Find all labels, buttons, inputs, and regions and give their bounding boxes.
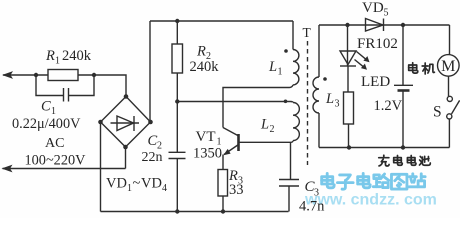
wire: bridge left corner down to ground rail xyxy=(100,122,102,212)
label 电机 (motor, CJK) xyxy=(409,63,435,74)
L3 polarity dot xyxy=(323,77,327,81)
wire: C1 parallel loop xyxy=(36,75,63,96)
node: charger top rail / LED tap xyxy=(345,23,349,27)
node: bridge bottom (AC in) xyxy=(123,145,128,150)
svg-text:R: R xyxy=(45,48,55,64)
node: C2 at ground rail xyxy=(175,209,179,213)
wire: LED top lead xyxy=(347,25,349,66)
svg-text:3: 3 xyxy=(314,188,319,199)
svg-text:1: 1 xyxy=(127,183,132,194)
svg-text:M: M xyxy=(441,58,455,75)
svg-text:L: L xyxy=(268,59,277,75)
svg-text:C: C xyxy=(41,99,51,115)
node: bridge top (AC in) xyxy=(124,94,129,99)
wire: battery top lead xyxy=(402,25,404,85)
L1 polarity dot xyxy=(284,49,288,53)
capacitor C1 xyxy=(63,88,65,102)
wire: top rail xyxy=(150,20,293,22)
wire: VT1 base to L2 bottom xyxy=(240,141,291,143)
inductor L2 (feedback winding) xyxy=(291,102,294,103)
wire: R1 right to bridge top xyxy=(78,75,126,95)
svg-text:1: 1 xyxy=(55,56,60,67)
svg-text:3: 3 xyxy=(335,99,340,110)
LED emission arrow 2 xyxy=(355,60,365,68)
transistor VT1 emitter arrowhead xyxy=(223,149,230,155)
wire: C2 bottom lead to ground rail xyxy=(176,159,178,212)
svg-text:VT: VT xyxy=(196,129,216,145)
bridge inner diode triangle xyxy=(117,116,134,131)
node: bridge left (DC-) xyxy=(98,120,103,125)
svg-text:VD: VD xyxy=(141,176,162,192)
svg-text:22n: 22n xyxy=(142,150,163,165)
LED triangle xyxy=(340,51,356,65)
svg-text:FR102: FR102 xyxy=(357,36,398,52)
L2 polarity dot xyxy=(284,100,288,104)
svg-text:1: 1 xyxy=(278,67,283,78)
inductor L1 (primary winding) xyxy=(293,50,299,85)
svg-text:C: C xyxy=(148,133,158,149)
wire: L3 top lead xyxy=(318,25,320,77)
wire: battery bottom lead xyxy=(402,92,404,148)
svg-text:2: 2 xyxy=(270,124,275,135)
svg-text:L: L xyxy=(260,117,269,133)
LED cathode bar xyxy=(340,65,356,67)
node: R2 / C2 / L2-top junction xyxy=(175,99,179,103)
node: R3 at ground rail xyxy=(221,209,225,213)
svg-text:~: ~ xyxy=(133,176,141,192)
diode VD5 cathode bar xyxy=(383,19,385,32)
wire: charger top rail xyxy=(319,24,450,26)
svg-text:240k: 240k xyxy=(62,48,92,64)
label 充电电池 (rechargeable battery, CJK) xyxy=(379,155,431,166)
wire: C3 bottom lead to ground rail xyxy=(288,186,290,212)
switch S contacts xyxy=(447,96,452,101)
wire: VT1 collector to L1 bottom xyxy=(223,88,289,128)
wire: motor to switch xyxy=(448,76,450,96)
resistor R3 body xyxy=(218,170,228,197)
wire: ground rail xyxy=(101,211,289,213)
node: bridge right (DC+) xyxy=(148,120,153,125)
svg-text:T: T xyxy=(303,25,312,40)
svg-text:4: 4 xyxy=(162,183,167,194)
battery 1.2V negative plate xyxy=(398,89,410,92)
wire: charger bottom rail xyxy=(319,147,449,149)
capacitor C3 xyxy=(279,179,299,181)
transformer core dashed line xyxy=(307,41,309,165)
wire: bridge bottom to AC bottom line xyxy=(125,149,127,169)
wire: AC hot line from arrow to R1 xyxy=(3,74,48,76)
svg-text:VD: VD xyxy=(106,176,127,192)
wire: AC neutral line (bottom) xyxy=(3,168,126,170)
svg-text:R: R xyxy=(196,44,206,60)
node: R1/C1 left junction xyxy=(34,73,38,77)
wire: switch to bottom rail xyxy=(448,119,450,148)
capacitor C2 xyxy=(169,151,186,153)
transistor VT1 collector stroke xyxy=(223,128,238,136)
battery 1.2V positive plate xyxy=(394,84,413,86)
node: battery at bottom rail xyxy=(401,145,405,149)
svg-text:1350: 1350 xyxy=(193,146,222,162)
svg-text:100~220V: 100~220V xyxy=(25,153,87,169)
wire: R3 bottom lead to ground rail xyxy=(222,196,224,212)
svg-text:4.7n: 4.7n xyxy=(299,199,325,215)
resistor R2 body xyxy=(172,44,183,73)
bridge inner diode lead xyxy=(111,122,140,124)
wire: R2 junction to L2 top xyxy=(177,101,290,103)
node: top rail / R2 tap xyxy=(175,19,179,23)
wire: LED to series resistor xyxy=(347,66,349,92)
svg-text:33: 33 xyxy=(229,182,244,198)
watermark line 1: 电子电路图站 xyxy=(322,173,425,189)
motor M circle xyxy=(438,55,460,77)
svg-text:0.22μ/400V: 0.22μ/400V xyxy=(12,116,81,132)
wire: L3 bottom lead xyxy=(318,113,320,148)
svg-text:1.2V: 1.2V xyxy=(374,98,403,114)
svg-text:240k: 240k xyxy=(190,59,220,75)
bridge inner diode cathode bar xyxy=(133,116,135,131)
diode VD5 triangle xyxy=(366,19,384,32)
AC line arrowhead (bottom) xyxy=(2,165,13,173)
wire: top rail to motor xyxy=(449,25,451,55)
resistor R1 body xyxy=(48,70,78,81)
svg-text:AC: AC xyxy=(45,136,64,151)
transistor VT1 bar xyxy=(237,134,240,151)
svg-text:LED: LED xyxy=(361,74,390,90)
inductor L3 (secondary winding) xyxy=(313,77,319,113)
svg-text:L: L xyxy=(325,91,334,107)
svg-text:VD: VD xyxy=(362,0,384,16)
svg-text:5: 5 xyxy=(384,8,389,19)
wire: R2 top lead xyxy=(176,21,178,44)
wire: VT1 emitter to R3 xyxy=(222,155,224,170)
node: charger top rail / battery tap xyxy=(401,23,405,27)
wire: resistor to bottom rail xyxy=(348,124,350,148)
bridge rectifier VD1~VD4 diamond xyxy=(101,97,151,148)
LED series resistor body xyxy=(344,92,354,124)
svg-text:S: S xyxy=(433,104,442,121)
AC line arrowhead (top) xyxy=(2,71,13,79)
wire: top rail corner down to L1 xyxy=(292,21,294,50)
transistor VT1 emitter stroke xyxy=(224,145,238,155)
wire: R2 bottom lead down to C2 xyxy=(176,73,178,152)
switch S lever xyxy=(452,100,460,114)
node: R1/C1 right junction xyxy=(92,73,96,77)
LED emission arrow 1 xyxy=(357,52,368,61)
node: LED branch at bottom rail xyxy=(347,145,351,149)
wire: bridge right corner up to top rail xyxy=(149,21,151,122)
wire: L2 bottom node down to C3 xyxy=(290,142,292,179)
